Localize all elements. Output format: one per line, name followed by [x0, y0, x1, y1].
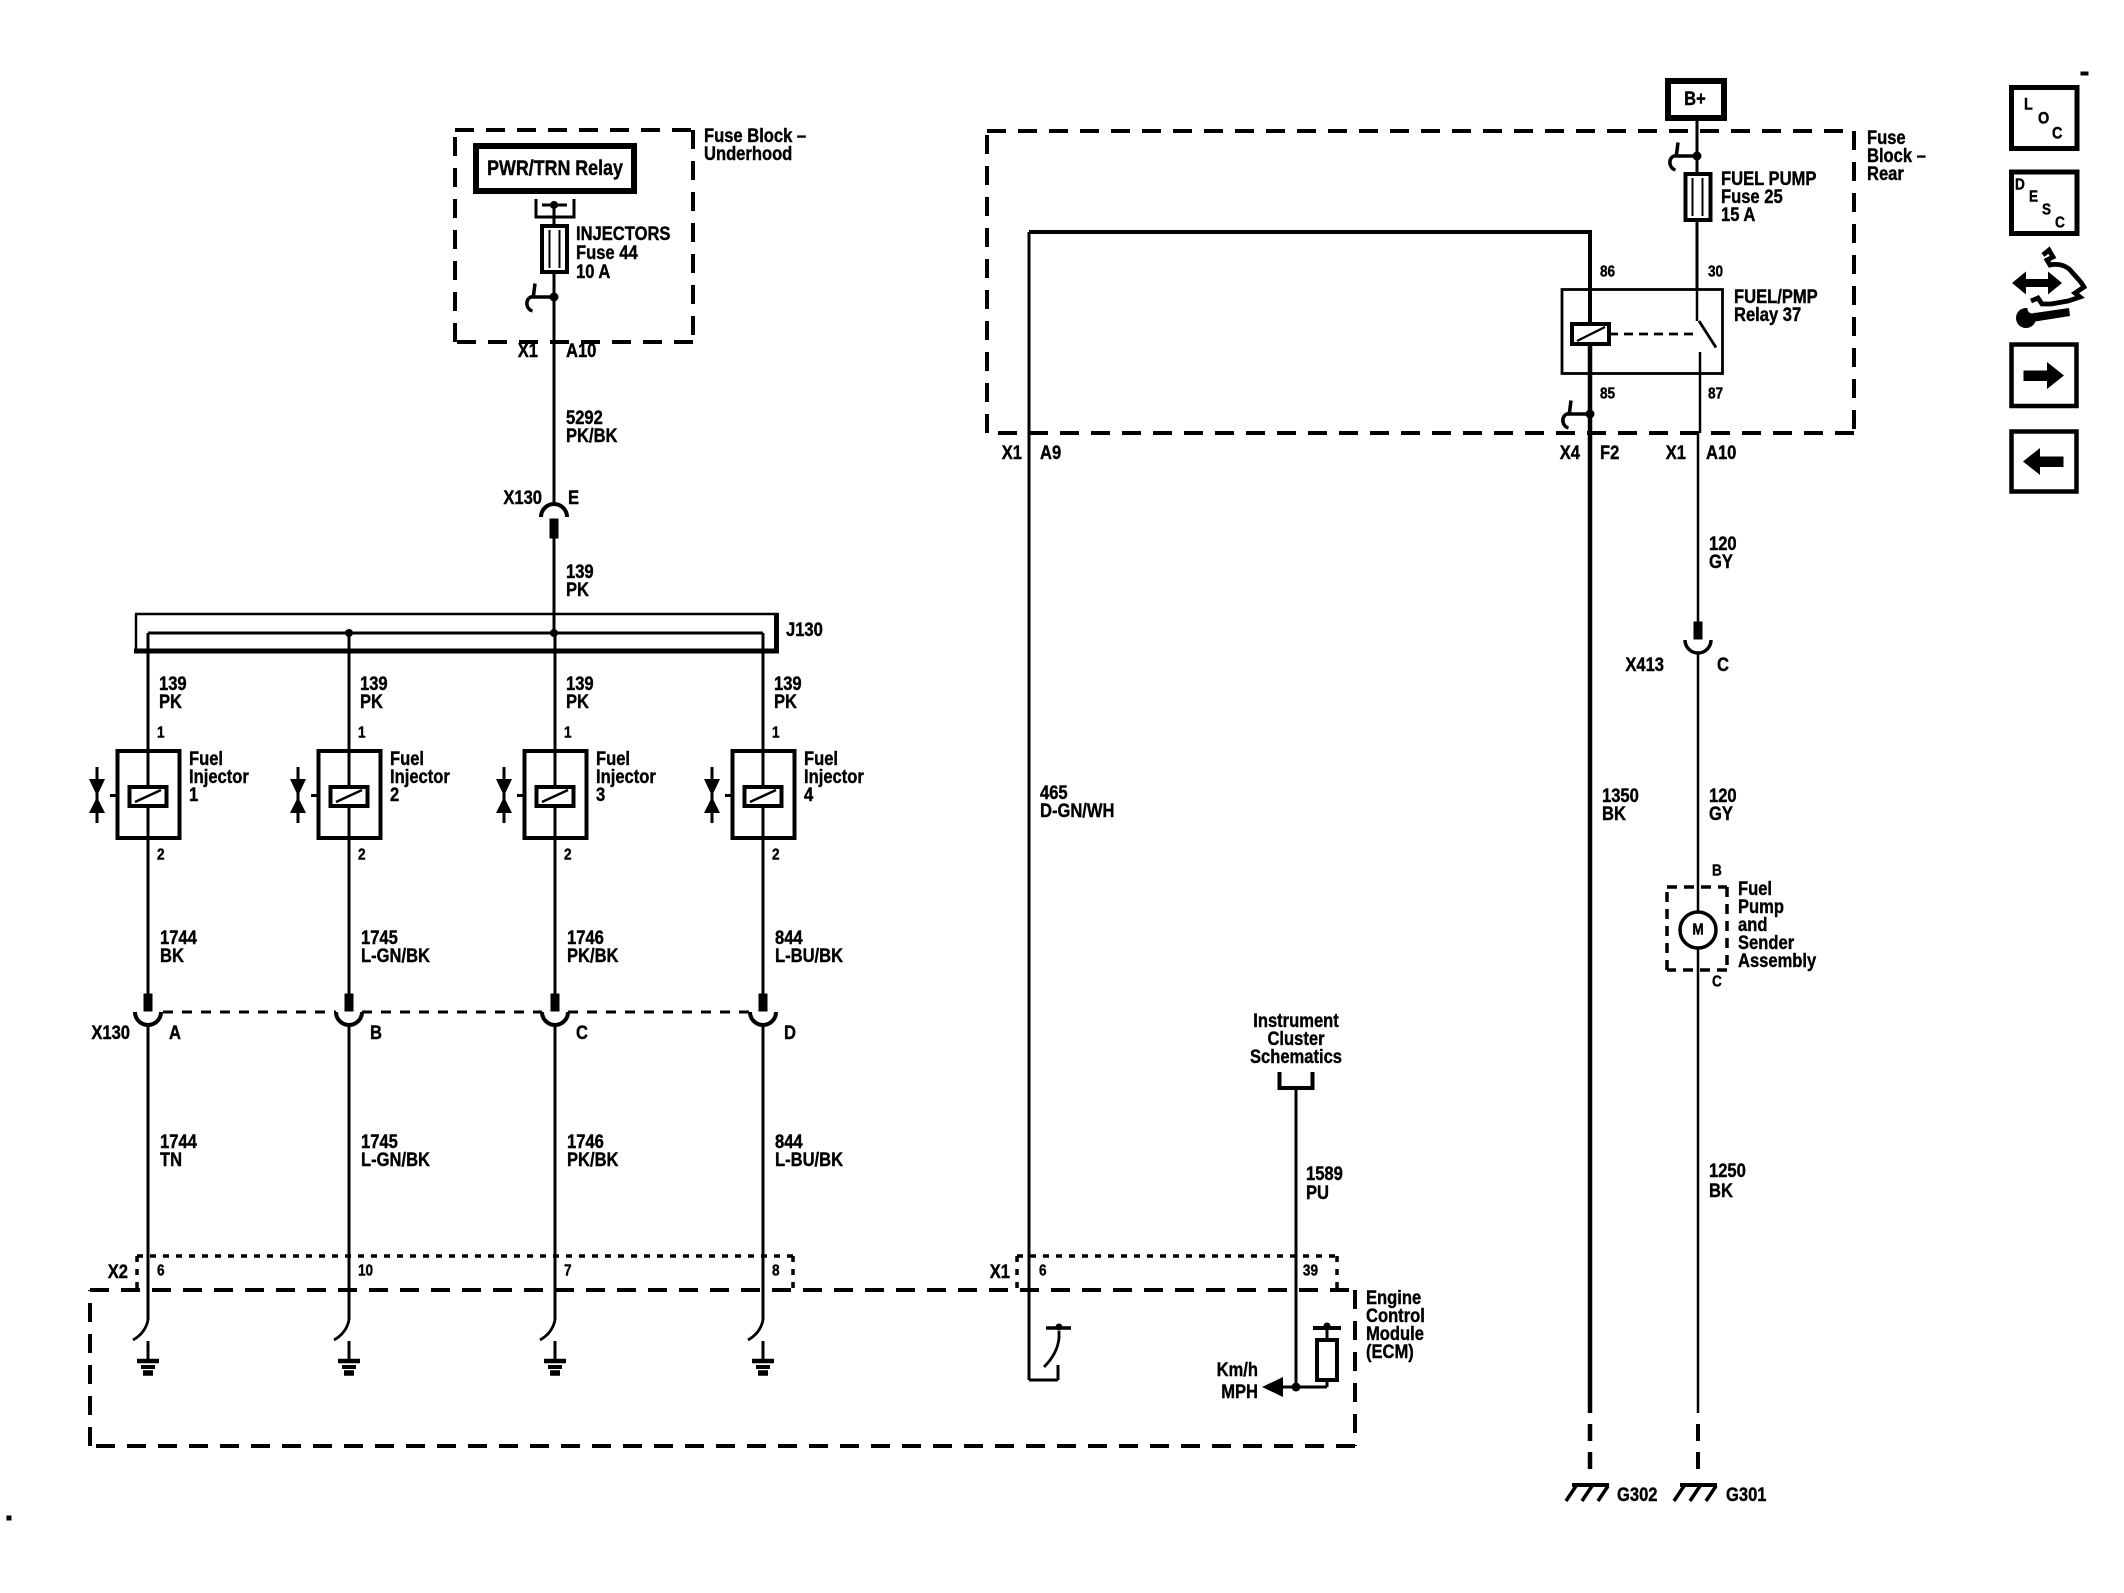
svg-text:1: 1: [157, 725, 165, 742]
ECM internal ground (injector 1 driver): [137, 1341, 159, 1373]
fuel injector 2 internal wire (top): [348, 750, 351, 787]
label: 1746 PK/BK: [567, 927, 619, 967]
inline connector X130 pin B: [336, 994, 362, 1025]
label: FUEL PUMP Fuse 25 15 A: [1721, 168, 1816, 226]
injector nozzle valve symbol (injector 4): [704, 767, 720, 823]
ECM pin 7 label (X2): [564, 1263, 572, 1280]
ECM injector 2 driver switch: [334, 1320, 349, 1340]
wire injector 3 pin 2 to X130 C: [554, 836, 557, 994]
svg-text:2: 2: [772, 847, 780, 864]
svg-text:L-GN/BK: L-GN/BK: [361, 945, 430, 967]
feeder wire ECM A9 to relay pin 86: [1029, 230, 1590, 324]
pin 2 of fuel injector 3: [564, 847, 572, 864]
svg-text:X1: X1: [1666, 442, 1686, 464]
label: Instrument Cluster Schematics: [1250, 1010, 1342, 1068]
label: X2: [108, 1261, 128, 1283]
svg-text:X413: X413: [1625, 654, 1664, 676]
svg-text:8: 8: [772, 1263, 780, 1280]
fuse block terminal cup (PWR/TRN relay output): [536, 199, 574, 217]
ECM pin 6 label (X2): [157, 1263, 165, 1280]
relay contact arm (30-87): [1697, 289, 1716, 348]
fuel injector 3 internal wire (top): [554, 750, 557, 787]
wire 1744 TN to ECM pin 6: [147, 1025, 150, 1320]
label: Fuel Pump and Sender Assembly: [1738, 878, 1816, 972]
svg-text:PWR/TRN Relay: PWR/TRN Relay: [487, 156, 623, 180]
off-page connector bracket (instrument cluster): [1280, 1072, 1313, 1088]
ECM internal ground (injector 3 driver): [544, 1341, 566, 1373]
injector nozzle valve symbol (injector 1): [89, 767, 105, 823]
relay contact hook symbol: [527, 284, 559, 311]
svg-text:O: O: [2038, 109, 2049, 127]
relay pin 30 label: [1708, 264, 1723, 281]
wire 120 GY (A10 to X413): [1697, 433, 1700, 639]
svg-text:39: 39: [1303, 1263, 1318, 1280]
svg-text:D: D: [784, 1022, 796, 1044]
fuel injector 3 coil: [517, 787, 574, 836]
label: 1350 BK: [1602, 785, 1639, 825]
svg-text:A9: A9: [1040, 442, 1061, 464]
svg-text:2: 2: [157, 847, 165, 864]
svg-text:G301: G301: [1726, 1484, 1767, 1506]
svg-text:X1: X1: [1002, 442, 1022, 464]
svg-text:C: C: [2055, 215, 2065, 232]
ECM pin 39 label (X1): [1303, 1263, 1318, 1280]
svg-text:PK: PK: [360, 691, 383, 713]
label: 139 PK (branch 1): [159, 673, 187, 713]
label: connector cavity B: [370, 1022, 382, 1044]
inline connector X130 pin A: [135, 994, 161, 1025]
svg-text:A: A: [169, 1022, 181, 1044]
wire 139 PK drop to injector 4: [762, 651, 765, 750]
ground G301: [1674, 1485, 1717, 1501]
inline connector X413 pin C: [1685, 622, 1711, 653]
label: Fuel Injector 1: [189, 748, 249, 806]
connector label X1 | A9: [1002, 442, 1061, 464]
svg-text:Relay 37: Relay 37: [1734, 304, 1801, 326]
ECM internal ground (injector 2 driver): [338, 1341, 360, 1373]
icon: LOC button: [2012, 88, 2078, 149]
svg-text:1: 1: [358, 725, 366, 742]
fuel pump and sender assembly box (dashed): [1667, 887, 1727, 970]
label: pump pin B: [1712, 863, 1722, 880]
label: X413 C: [1625, 654, 1729, 676]
svg-text:Assembly: Assembly: [1738, 950, 1816, 972]
svg-text:PK/BK: PK/BK: [567, 945, 619, 967]
svg-text:1250: 1250: [1709, 1160, 1746, 1182]
fuel injector 1 box: [118, 751, 180, 838]
junction dot on J130 (branch 3): [550, 629, 558, 637]
fuse block - underhood enclosure (dashed): [455, 130, 693, 342]
svg-text:6: 6: [157, 1263, 165, 1280]
svg-text:86: 86: [1600, 264, 1615, 281]
fuel injector 4 internal wire (top): [762, 750, 765, 787]
svg-text:C: C: [2052, 124, 2062, 142]
label: X130 E: [503, 487, 579, 509]
ECM internal resistor (pin 39 output): [1313, 1323, 1341, 1381]
battery feed B+ box: [1668, 81, 1724, 118]
fuse block - rear enclosure (dashed): [987, 131, 1854, 433]
wire 844 L-BU/BK to ECM pin 8: [762, 1025, 765, 1320]
ECM low-side driver at pin 6: [1029, 1324, 1071, 1381]
wire 139 PK drop to injector 3: [554, 633, 557, 750]
relay PWR/TRN label box: [476, 146, 634, 191]
label: Engine Control Module (ECM): [1366, 1287, 1425, 1363]
svg-text:A10: A10: [1706, 442, 1736, 464]
pin 1 of fuel injector 3: [564, 725, 572, 742]
svg-text:PU: PU: [1306, 1182, 1329, 1204]
label: INJECTORS Fuse 44 10 A: [576, 223, 670, 283]
label: FUEL/PMP Relay 37: [1734, 286, 1818, 326]
svg-text:PK: PK: [566, 579, 589, 601]
svg-text:PK/BK: PK/BK: [567, 1149, 619, 1171]
label: 1745 L-GN/BK: [361, 1131, 430, 1171]
label: X130 (row): [91, 1022, 130, 1044]
svg-text:X1: X1: [518, 340, 538, 362]
label: G301: [1726, 1484, 1767, 1506]
pin 2 of fuel injector 2: [358, 847, 366, 864]
relay coil-contact link (dashed): [1609, 333, 1697, 336]
svg-text:E: E: [2029, 189, 2038, 206]
svg-text:G302: G302: [1617, 1484, 1658, 1506]
label: 844 L-BU/BK: [775, 1131, 843, 1171]
fuel injector 2 coil: [311, 787, 368, 836]
icon: component locator (arrow + wrench): [2012, 250, 2084, 328]
svg-text:15 A: 15 A: [1721, 204, 1755, 226]
ECM connector X1 pin strip (dotted): [1017, 1256, 1337, 1290]
svg-text:PK: PK: [159, 691, 182, 713]
label: 139 PK (branch 4): [774, 673, 802, 713]
label: 139 PK (above J130): [566, 561, 594, 601]
svg-text:1: 1: [189, 784, 198, 806]
inline connector X130 pin D: [750, 994, 776, 1025]
wire 1250 BK (pump to G301): [1697, 970, 1700, 1469]
ECM injector 3 driver switch: [540, 1320, 555, 1340]
svg-text:85: 85: [1600, 386, 1615, 403]
pin 1 of fuel injector 4: [772, 725, 780, 742]
ECM speed signal output node: [1292, 1380, 1328, 1392]
label: Fuse Block - Rear: [1867, 127, 1926, 185]
fuse F25 (FUEL PUMP Fuse 25 15A): [1686, 174, 1711, 220]
svg-text:6: 6: [1039, 1263, 1047, 1280]
relay pin 85 label: [1600, 386, 1615, 403]
wire injector 4 pin 2 to X130 D: [762, 836, 765, 994]
fuse F44 (INJECTORS Fuse 44 10A): [542, 226, 567, 272]
svg-text:Rear: Rear: [1867, 163, 1904, 185]
svg-text:87: 87: [1708, 386, 1723, 403]
svg-text:GY: GY: [1709, 803, 1733, 825]
injector nozzle valve symbol (injector 3): [496, 767, 512, 823]
label: 139 PK (branch 3): [566, 673, 594, 713]
fuel injector 3 box: [525, 751, 587, 838]
ECM box (dashed): [90, 1290, 1355, 1446]
svg-text:L-GN/BK: L-GN/BK: [361, 1149, 430, 1171]
svg-text:E: E: [568, 487, 579, 509]
pin 1 of fuel injector 1: [157, 725, 165, 742]
wire 1746 PK/BK to ECM pin 7: [554, 1025, 557, 1320]
icon: DESC button: [2012, 172, 2078, 234]
wire injector 1 pin 2 to X130 A: [147, 836, 150, 994]
fuel injector 2 box: [319, 751, 381, 838]
label: connector cavity C: [576, 1022, 588, 1044]
svg-text:(ECM): (ECM): [1366, 1341, 1414, 1363]
X130 connector dashed interconnect line: [163, 1011, 750, 1014]
label: connector cavity A: [169, 1022, 181, 1044]
relay pin 86 label: [1600, 264, 1615, 281]
label: 5292 PK/BK: [566, 407, 618, 447]
svg-text:PK: PK: [774, 691, 797, 713]
label: 1744 BK: [160, 927, 197, 967]
svg-text:F2: F2: [1600, 442, 1619, 464]
wire 1350 BK (F2 to G302): [1588, 433, 1593, 1469]
svg-text:C: C: [1717, 654, 1729, 676]
label: X1 (ECM strip): [990, 1261, 1010, 1283]
svg-text:B: B: [370, 1022, 382, 1044]
wire 465 D-GN/WH (A9 to ECM pin 6): [1028, 232, 1031, 1380]
label: 1746 PK/BK: [567, 1131, 619, 1171]
wire 1589 PU: [1295, 1088, 1298, 1387]
svg-text:C: C: [576, 1022, 588, 1044]
svg-text:BK: BK: [160, 945, 184, 967]
ECM pin 8 label (X2): [772, 1263, 780, 1280]
wire B+ into fuse block: [1696, 119, 1699, 172]
wire 1745 L-GN/BK to ECM pin 10: [348, 1025, 351, 1320]
label: connector cavity D: [784, 1022, 796, 1044]
svg-text:GY: GY: [1709, 551, 1733, 573]
icon: back arrow button: [2012, 432, 2077, 492]
label: 844 L-BU/BK: [775, 927, 843, 967]
wire injector 2 pin 2 to X130 B: [348, 836, 351, 994]
svg-text:L-BU/BK: L-BU/BK: [775, 945, 843, 967]
speed signal arrow to Km/h MPH: [1262, 1377, 1296, 1397]
svg-text:MPH: MPH: [1221, 1381, 1258, 1403]
relay FUEL/PMP box: [1562, 290, 1723, 374]
svg-text:10 A: 10 A: [576, 261, 610, 283]
svg-text:A10: A10: [566, 340, 596, 362]
pin 1 of fuel injector 2: [358, 725, 366, 742]
svg-text:L-BU/BK: L-BU/BK: [775, 1149, 843, 1171]
fuel injector 1 coil: [110, 787, 167, 836]
label: 120 GY (lower): [1709, 785, 1737, 825]
connector label X1 | A10 (rear): [1666, 442, 1737, 464]
svg-text:1: 1: [772, 725, 780, 742]
pin 2 of fuel injector 4: [772, 847, 780, 864]
wire 139 PK drop to injector 2: [348, 633, 351, 750]
icon: next arrow button: [2012, 345, 2077, 407]
injector nozzle valve symbol (injector 2): [290, 767, 306, 823]
label: 120 GY (upper): [1709, 533, 1737, 573]
svg-text:X130: X130: [503, 487, 542, 509]
label: pump pin C: [1712, 974, 1722, 991]
svg-text:PK/BK: PK/BK: [566, 425, 618, 447]
svg-text:4: 4: [804, 784, 813, 806]
svg-text:J130: J130: [786, 619, 823, 641]
fuel injector 4 box: [733, 751, 795, 838]
inline connector X130 pin E: [541, 504, 567, 538]
svg-text:X1: X1: [990, 1261, 1010, 1283]
wire 139 PK (X130 to splice J130): [553, 537, 556, 633]
svg-text:M: M: [1692, 922, 1703, 939]
svg-text:10: 10: [358, 1263, 373, 1280]
ground G302: [1566, 1485, 1609, 1501]
ECM injector 1 driver switch: [133, 1320, 148, 1340]
svg-text:3: 3: [596, 784, 605, 806]
pin 2 of fuel injector 1: [157, 847, 165, 864]
svg-text:2: 2: [390, 784, 399, 806]
relay pin85 hook contact: [1563, 401, 1595, 428]
label: Fuel Injector 2: [390, 748, 450, 806]
label: Fuel Injector 3: [596, 748, 656, 806]
ECM injector 4 driver switch: [748, 1320, 763, 1340]
svg-text:Km/h: Km/h: [1217, 1359, 1258, 1381]
svg-text:B: B: [1712, 863, 1722, 880]
svg-text:TN: TN: [160, 1149, 182, 1171]
label: 1589 PU: [1306, 1163, 1343, 1204]
svg-text:7: 7: [564, 1263, 572, 1280]
label: Fuse Block - Underhood: [704, 125, 806, 165]
label: 1250 BK: [1709, 1160, 1746, 1202]
svg-text:30: 30: [1708, 264, 1723, 281]
wire 5292 PK/BK (fuse block to X130): [553, 297, 556, 505]
wire from relay terminal to fuse 44: [553, 209, 556, 225]
relay pin 87 label: [1708, 386, 1723, 403]
ECM pin 10 label (X2): [358, 1263, 373, 1280]
svg-text:L: L: [2024, 95, 2033, 113]
connector label X4 | F2: [1560, 442, 1620, 464]
fuel injector 1 internal wire (top): [147, 750, 150, 787]
fuel pump motor M: [1680, 887, 1716, 970]
svg-text:Underhood: Underhood: [704, 143, 792, 165]
svg-text:Schematics: Schematics: [1250, 1046, 1342, 1068]
wire fuse 44 to contact: [553, 271, 556, 297]
label: J130: [786, 619, 823, 641]
label: Km/h MPH: [1217, 1359, 1258, 1403]
svg-text:PK: PK: [566, 691, 589, 713]
relay coil: [1572, 324, 1609, 344]
fuel injector 4 coil: [725, 787, 782, 836]
label: 465 D-GN/WH: [1040, 782, 1115, 822]
svg-text:X4: X4: [1560, 442, 1580, 464]
svg-text:D: D: [2015, 177, 2025, 194]
svg-text:X2: X2: [108, 1261, 128, 1283]
svg-text:BK: BK: [1602, 803, 1626, 825]
junction dot on J130 (branch 2): [345, 629, 353, 637]
connector label X1 | A10 (underhood): [518, 340, 597, 362]
svg-text:1: 1: [564, 725, 572, 742]
svg-text:B+: B+: [1684, 88, 1706, 110]
svg-text:X130: X130: [91, 1022, 130, 1044]
label: 1745 L-GN/BK: [361, 927, 430, 967]
svg-text:2: 2: [564, 847, 572, 864]
svg-text:C: C: [1712, 974, 1722, 991]
wire 120 GY (X413 to pump B): [1697, 653, 1700, 887]
svg-text:2: 2: [358, 847, 366, 864]
label: 1744 TN: [160, 1131, 197, 1171]
svg-text:D-GN/WH: D-GN/WH: [1040, 800, 1115, 822]
ECM pin 6 label (X1): [1039, 1263, 1047, 1280]
svg-text:BK: BK: [1709, 1180, 1733, 1202]
ECM connector X2 pin strip (dotted): [137, 1256, 793, 1290]
wire relay pin 87 out: [1698, 352, 1700, 433]
label: Fuel Injector 4: [804, 748, 864, 806]
fuse block terminal hook (fuse 25 feed): [1670, 143, 1702, 170]
wire relay pin 85 (to X4 F2): [1588, 344, 1593, 433]
label: 139 PK (branch 2): [360, 673, 388, 713]
splice pack J130 bus: [134, 613, 779, 653]
ECM internal ground (injector 4 driver): [752, 1341, 774, 1373]
wire 139 PK drop to injector 1: [147, 651, 150, 750]
label: G302: [1617, 1484, 1658, 1506]
svg-text:S: S: [2042, 202, 2051, 219]
inline connector X130 pin C: [542, 994, 568, 1025]
wire fuse 25 to relay pin 30: [1696, 220, 1699, 290]
